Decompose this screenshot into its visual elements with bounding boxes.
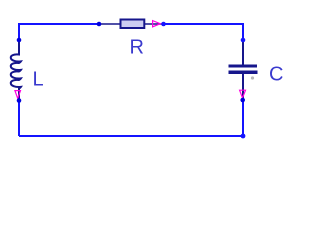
node left of resistor bbox=[97, 22, 102, 27]
capacitor C bbox=[229, 40, 258, 100]
svg-text:C: C bbox=[269, 64, 283, 86]
svg-text:R: R bbox=[130, 37, 144, 59]
current arrow (inductor) bbox=[15, 91, 21, 99]
node bottom-right corner bbox=[241, 134, 246, 139]
resistor R bbox=[99, 20, 163, 29]
node bottom of inductor bbox=[17, 98, 22, 103]
wire left side below inductor bbox=[18, 101, 20, 137]
node top of inductor bbox=[17, 38, 22, 43]
node top of capacitor bbox=[241, 38, 246, 43]
label L bbox=[33, 69, 44, 91]
wire right side below capacitor bbox=[242, 100, 244, 136]
svg-text:L: L bbox=[33, 69, 44, 91]
artifact mark below capacitor plate bbox=[251, 76, 254, 79]
inductor L bbox=[11, 40, 21, 101]
label R bbox=[130, 37, 144, 59]
wire top-left to resistor node bbox=[19, 24, 99, 40]
node right of resistor bbox=[161, 22, 166, 27]
node bottom of capacitor bbox=[240, 98, 245, 103]
current arrow (capacitor) bbox=[240, 90, 246, 98]
current arrow (resistor) bbox=[153, 21, 161, 27]
wire resistor node to top-right bbox=[163, 24, 243, 40]
wire bottom bbox=[19, 135, 243, 137]
label C bbox=[269, 64, 283, 86]
